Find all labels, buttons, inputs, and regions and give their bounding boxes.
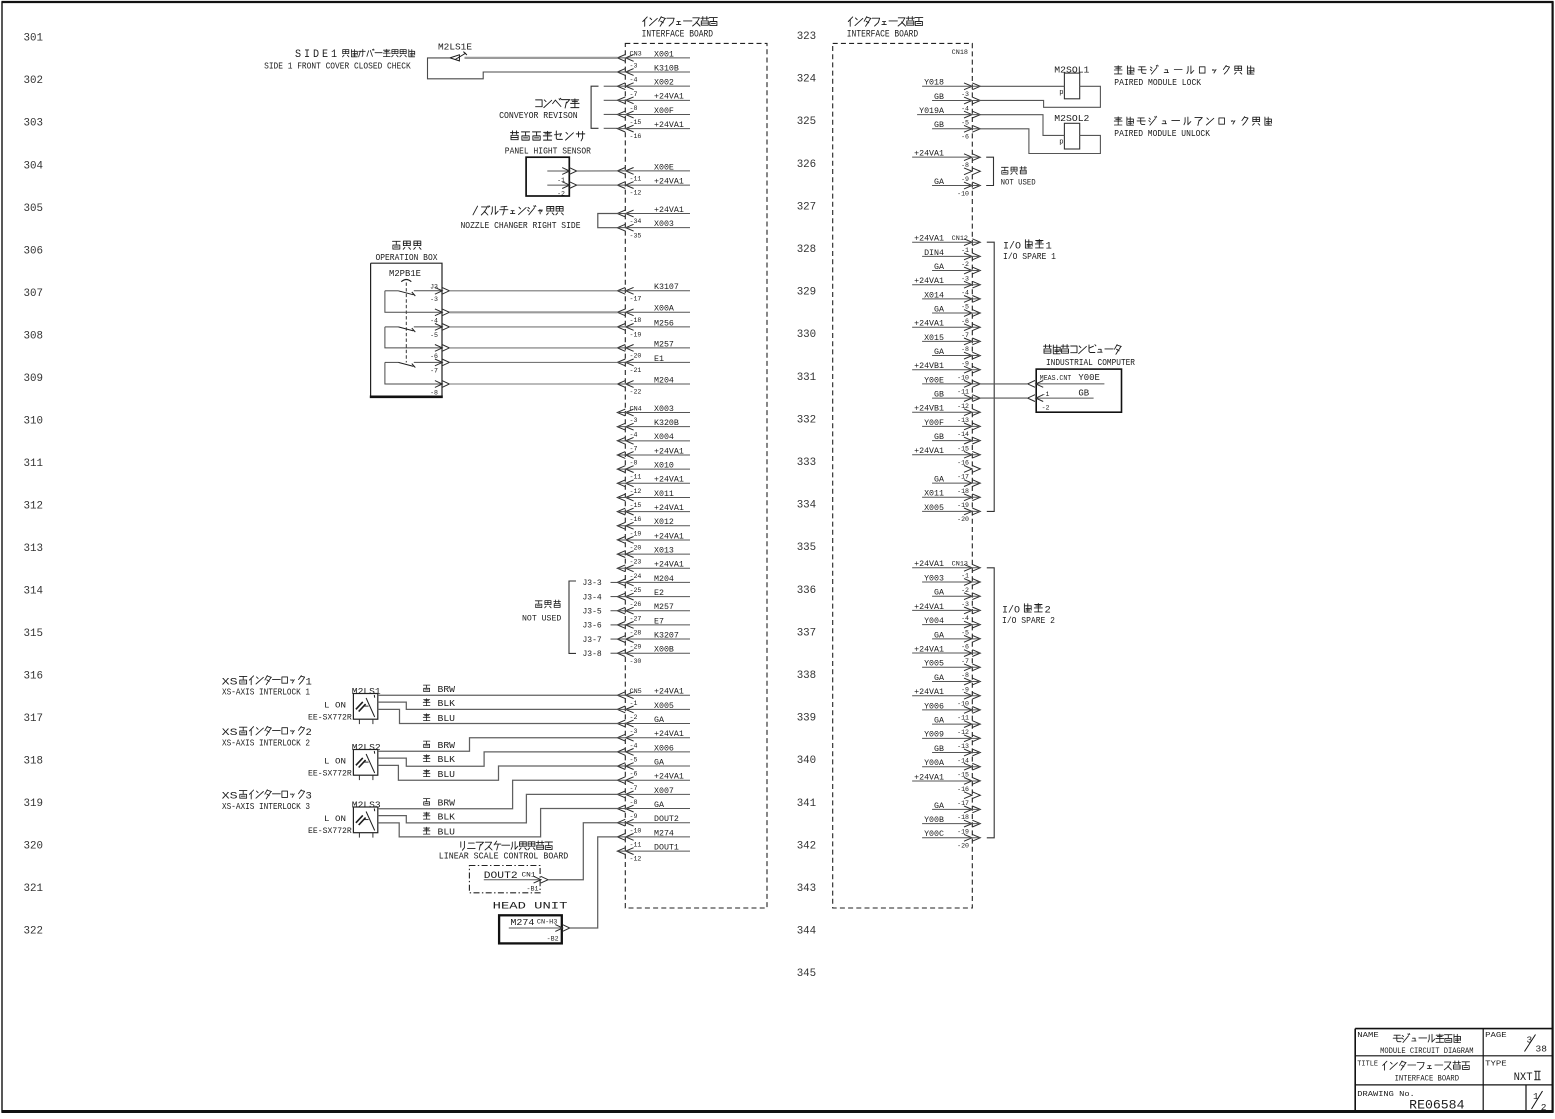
wire BLK sensor M2LS3 to CN5 [378, 794, 618, 823]
svg-text:321: 321 [24, 883, 44, 895]
svg-text:+24VA1: +24VA1 [914, 773, 944, 782]
svg-text:J3-8: J3-8 [583, 650, 602, 659]
wire M274 head unit to CN5-10 [570, 837, 618, 928]
connector CN12 pin -18 GA [932, 475, 980, 494]
connector CN13 pin -7 +24VA1 [912, 645, 980, 664]
svg-text:-15: -15 [957, 445, 969, 452]
svg-text:-17: -17 [957, 800, 969, 807]
svg-text:GA: GA [934, 305, 944, 314]
svg-text:-28: -28 [630, 630, 642, 637]
interface board (left) title [642, 17, 718, 41]
connector CN12 pin -5 X014 [922, 291, 980, 310]
svg-text:CN13: CN13 [952, 561, 968, 569]
svg-text:J3-3: J3-3 [583, 579, 602, 588]
industrial computer box [1036, 369, 1121, 412]
svg-text:-25: -25 [630, 587, 642, 594]
connector CN5 pin -4 +24VA1 [617, 730, 690, 749]
label panel height sensor [505, 131, 592, 157]
title block PAGE cell [1485, 1032, 1547, 1054]
svg-text:322: 322 [24, 926, 44, 938]
svg-text:PAIRED MODULE UNLOCK: PAIRED MODULE UNLOCK [1114, 129, 1210, 139]
bracket I/O spare 1 [987, 242, 994, 511]
label linear scale control board [439, 841, 569, 862]
svg-text:342: 342 [797, 840, 817, 852]
connector CN5 pin -8 X007 [617, 787, 690, 806]
svg-text:-16: -16 [957, 460, 969, 467]
connector CN12 pin -3 GA [932, 263, 980, 282]
computer GB pin [1028, 388, 1094, 411]
svg-text:Y004: Y004 [924, 617, 944, 626]
connector CN3 nozzle pin -35 X003 [617, 220, 690, 239]
conveyor revision selection bracket [591, 86, 618, 128]
svg-text:-2: -2 [557, 191, 565, 198]
svg-text:-13: -13 [957, 743, 969, 750]
connector CN5 pin -11 M274 [617, 829, 690, 848]
svg-text:+24VA1: +24VA1 [914, 688, 944, 697]
wire Y018 to M2SOL1 [980, 85, 1064, 87]
svg-text:-15: -15 [630, 119, 642, 126]
svg-text:J3-4: J3-4 [583, 593, 602, 602]
nozzle changer jumper loop [598, 214, 618, 228]
connector CN4 pin -15 X011 [617, 490, 690, 509]
connector CN4 pin -29 K3207 [617, 631, 690, 650]
connector CN3 lower pin -12 +24VA1 [617, 177, 690, 196]
svg-text:I/O: I/O [1002, 604, 1020, 616]
svg-text:-18: -18 [630, 317, 642, 324]
svg-text:X011: X011 [654, 490, 674, 499]
solenoid M2SOL2 [1054, 114, 1089, 149]
svg-text:L ON: L ON [324, 814, 346, 824]
svg-text:-10: -10 [957, 375, 969, 382]
svg-text:-6: -6 [430, 353, 438, 360]
svg-text:-11: -11 [630, 842, 642, 849]
title block TYPE cell [1485, 1061, 1540, 1084]
grid line numbers 301-322 (left column) [24, 33, 44, 938]
svg-text:-1: -1 [557, 177, 565, 184]
svg-text:XS-AXIS INTERLOCK 2: XS-AXIS INTERLOCK 2 [222, 739, 310, 749]
connector CN13 pin -1 +24VA1 [912, 560, 980, 579]
svg-text:HEAD UNIT: HEAD UNIT [493, 900, 568, 912]
svg-text:-3: -3 [430, 296, 438, 303]
svg-text:X003: X003 [654, 405, 674, 414]
wire BLU sensor M2LS1 to CN5 [378, 709, 618, 723]
svg-text:-16: -16 [630, 133, 642, 140]
linear scale control board box [469, 866, 540, 893]
connector CN5 pin -12 DOUT1 [617, 843, 690, 862]
grid line numbers 323-345 (middle column) [797, 31, 817, 980]
push-button contact 2 [385, 327, 442, 348]
svg-text:-6: -6 [961, 644, 969, 651]
svg-text:-16: -16 [630, 516, 642, 523]
svg-text:313: 313 [24, 543, 44, 555]
connector CN12 pin -6 GA [932, 305, 980, 324]
connector CN18 pin -3 Y018 [922, 79, 980, 98]
svg-text:GB: GB [934, 93, 944, 102]
svg-text:L ON: L ON [324, 701, 346, 711]
computer MEAS.CNT Y00E pin [1028, 373, 1105, 398]
svg-text:-12: -12 [957, 403, 969, 410]
label not used (J3-3..J3-8) [522, 600, 561, 624]
svg-text:-17: -17 [630, 295, 642, 302]
wire color label BLU sensor 2 [423, 770, 455, 780]
svg-text:328: 328 [797, 244, 817, 256]
title block frame [1355, 1029, 1553, 1112]
svg-text:GB: GB [1078, 388, 1089, 398]
svg-text:GA: GA [934, 348, 944, 357]
svg-text:-11: -11 [957, 715, 969, 722]
connector CN3 pin -21 E1 [617, 355, 690, 374]
svg-text:-5: -5 [430, 332, 438, 339]
svg-text:Y003: Y003 [924, 574, 944, 583]
connector CN5 pin -3 GA [617, 716, 690, 735]
connector CN13 pin -2 Y003 [922, 574, 980, 593]
svg-text:-7: -7 [430, 368, 438, 375]
bracket I/O spare 2 [987, 568, 994, 838]
svg-text:338: 338 [797, 670, 817, 682]
push button M2PB1E [389, 269, 421, 363]
svg-text:M2SOL1: M2SOL1 [1054, 65, 1089, 75]
svg-text:CN-H3: CN-H3 [537, 918, 558, 926]
operation box outline [370, 263, 443, 397]
svg-text:316: 316 [24, 671, 44, 683]
svg-text:M256: M256 [654, 319, 674, 328]
svg-text:335: 335 [797, 542, 817, 554]
connector CN4 pin -19 X012 [617, 518, 690, 537]
svg-text:329: 329 [797, 287, 817, 299]
svg-text:1: 1 [1046, 240, 1052, 252]
wire color label BLK sensor 1 [423, 699, 455, 709]
svg-text:X00A: X00A [654, 305, 674, 314]
svg-text:NAME: NAME [1357, 1032, 1379, 1040]
connector CN18 pin -10 GA [932, 178, 980, 197]
label nozzle changer right side [461, 206, 581, 231]
svg-text:X001: X001 [654, 50, 674, 59]
connector CN3 pin -17 K3107 [617, 283, 690, 302]
connector CN3 pin -19 M256 [617, 319, 690, 338]
wire M2SOL1 return to GB [980, 86, 1100, 107]
svg-text:-10: -10 [630, 827, 642, 834]
svg-text:EE-SX772R: EE-SX772R [308, 826, 352, 836]
connector CN13 pin -13 Y009 [922, 731, 980, 750]
svg-text:INTERFACE BOARD: INTERFACE BOARD [1395, 1074, 1459, 1084]
svg-text:BLU: BLU [438, 828, 456, 838]
svg-text:GA: GA [934, 475, 944, 484]
svg-text:-19: -19 [957, 502, 969, 509]
svg-text:NXT: NXT [1514, 1072, 1533, 1084]
connector CN3 pin -3 X001 [617, 50, 690, 69]
svg-text:-20: -20 [630, 353, 642, 360]
connector CN13 pin -16 +24VA1 [912, 773, 980, 792]
svg-text:-11: -11 [630, 474, 642, 481]
connector CN13 pin -5 Y004 [922, 617, 980, 636]
label XS-axis interlock 3 [222, 790, 312, 812]
svg-text:GA: GA [654, 716, 664, 725]
connector CN18 pin -9 [961, 168, 980, 183]
svg-text:DOUT1: DOUT1 [654, 843, 679, 852]
svg-text:2: 2 [306, 727, 312, 739]
svg-text:-11: -11 [957, 389, 969, 396]
svg-text:305: 305 [24, 203, 44, 215]
svg-text:X014: X014 [924, 291, 944, 300]
cable operation box to CN3 [449, 291, 617, 384]
svg-text:331: 331 [797, 372, 817, 384]
connector CN4 pin -4 K320B [617, 419, 690, 438]
wire color label BRW sensor 3 [423, 799, 455, 809]
svg-text:BLK: BLK [438, 813, 456, 823]
svg-text:XS: XS [222, 791, 238, 803]
svg-text:Y019A: Y019A [919, 107, 944, 116]
svg-text:J3-5: J3-5 [583, 608, 602, 617]
wire GB CN12 to computer [980, 397, 1027, 399]
svg-text:336: 336 [797, 585, 817, 597]
stubs J3-3..J3-8 [583, 579, 618, 659]
svg-text:M257: M257 [654, 603, 674, 612]
svg-text:GB: GB [934, 121, 944, 130]
connector CN3 pin -15 X00F [617, 107, 690, 126]
connector CN4 pin -3 X003 [617, 405, 690, 424]
wire BLK sensor M2LS2 to CN5 [378, 752, 618, 766]
svg-text:CN5: CN5 [630, 688, 642, 696]
wire Y00E CN12 to computer [980, 383, 1027, 385]
svg-text:337: 337 [797, 627, 817, 639]
connector CN12 pin -1 +24VA1 [912, 235, 980, 254]
svg-text:X005: X005 [654, 702, 674, 711]
svg-text:308: 308 [24, 330, 44, 342]
svg-text:-10: -10 [957, 700, 969, 707]
title block sheet 1/2 cell [1532, 1091, 1547, 1113]
svg-text:XS-AXIS INTERLOCK 1: XS-AXIS INTERLOCK 1 [222, 688, 310, 698]
wire color label BLK sensor 2 [423, 755, 455, 765]
svg-text:+24VA1: +24VA1 [654, 504, 684, 513]
svg-text:SIDE 1 FRONT COVER CLOSED CHEC: SIDE 1 FRONT COVER CLOSED CHECK [264, 61, 411, 71]
connector CN12 pin -15 GB [932, 433, 980, 452]
svg-text:GB: GB [934, 433, 944, 442]
svg-text:323: 323 [797, 31, 817, 43]
connector CN4 pin -23 X013 [617, 547, 690, 566]
connector CN18 pin -6 GB [932, 121, 980, 140]
connector CN13 pin -20 Y00C [922, 830, 980, 849]
svg-text:p: p [1059, 89, 1063, 97]
wire color label BLU sensor 1 [423, 714, 455, 724]
cable panel sensor to CN3 [577, 170, 618, 172]
svg-text:-2: -2 [1042, 405, 1050, 412]
svg-text:+24VA1: +24VA1 [654, 532, 684, 541]
svg-text:-19: -19 [957, 828, 969, 835]
svg-text:327: 327 [797, 201, 817, 213]
svg-text:MEAS.CNT: MEAS.CNT [1040, 375, 1071, 383]
svg-text:X00B: X00B [654, 646, 674, 655]
svg-text:DRAWING No.: DRAWING No. [1357, 1091, 1415, 1099]
svg-text:-15: -15 [957, 772, 969, 779]
svg-text:311: 311 [24, 458, 44, 470]
connector CN12 pin -7 +24VA1 [912, 320, 980, 339]
svg-text:-35: -35 [630, 232, 642, 239]
svg-text:GA: GA [934, 802, 944, 811]
label conveyor revision [499, 98, 579, 121]
svg-text:INTERFACE BOARD: INTERFACE BOARD [847, 30, 918, 41]
connector CN13 pin -15 Y00A [922, 759, 980, 778]
connector CN5 pin -1 +24VA1 [617, 688, 690, 707]
wire DOUT2 to CN5-9 [548, 823, 617, 880]
svg-text:+24VA1: +24VA1 [654, 447, 684, 456]
connector CN3 nozzle pin -34 +24VA1 [617, 206, 690, 225]
connector CN4 pin -27 M257 [617, 603, 690, 622]
svg-text:Y00A: Y00A [924, 759, 944, 768]
svg-text:M274: M274 [510, 917, 534, 928]
connector CN12 pin -4 +24VA1 [912, 277, 980, 296]
svg-text:Y00C: Y00C [924, 830, 944, 839]
svg-text:M2LS1E: M2LS1E [438, 43, 472, 53]
svg-text:-12: -12 [957, 729, 969, 736]
solenoid M2SOL1 [1054, 65, 1089, 99]
label paired module lock [1114, 65, 1254, 88]
wire BLU sensor M2LS2 to CN5 [378, 765, 618, 780]
wire M2SOL2 return to GB [980, 129, 1100, 154]
svg-text:332: 332 [797, 414, 817, 426]
svg-text:LINEAR SCALE CONTROL BOARD: LINEAR SCALE CONTROL BOARD [439, 852, 569, 862]
svg-text:M274: M274 [654, 829, 674, 838]
svg-text:J3-6: J3-6 [583, 622, 602, 631]
svg-text:+24VA1: +24VA1 [654, 773, 684, 782]
svg-text:X011: X011 [924, 490, 944, 499]
svg-text:320: 320 [24, 841, 44, 853]
svg-text:M204: M204 [654, 575, 674, 584]
connector CN4 pin -8 +24VA1 [617, 447, 690, 466]
connector CN3 lower pin -11 X00E [617, 163, 690, 182]
svg-text:M257: M257 [654, 340, 674, 349]
svg-text:L ON: L ON [324, 757, 346, 767]
connector CN4 pin -11 X010 [617, 462, 690, 481]
connector CN3 pin -18 X00A [617, 305, 690, 324]
svg-text:319: 319 [24, 798, 44, 810]
head unit M274 / CN-H3 pin [509, 917, 570, 944]
svg-text:X00F: X00F [654, 107, 674, 116]
connector CN4 pin -24 +24VA1 [617, 561, 690, 580]
connector CN5 pin -7 +24VA1 [617, 773, 690, 792]
svg-text:K310B: K310B [654, 64, 679, 73]
svg-text:-8: -8 [430, 389, 438, 396]
svg-text:301: 301 [24, 33, 44, 45]
svg-text:-30: -30 [630, 658, 642, 665]
label I/O spare 2 [1002, 604, 1055, 626]
svg-text:K320B: K320B [654, 419, 679, 428]
connector CN12 pin -12 GB [932, 390, 980, 409]
connector CN4 pin -30 X00B [617, 646, 690, 665]
svg-text:-18: -18 [957, 488, 969, 495]
svg-text:-27: -27 [630, 615, 642, 622]
connector CN4 pin -26 E2 [617, 589, 690, 608]
svg-text:340: 340 [797, 755, 817, 767]
svg-text:+24VA1: +24VA1 [654, 121, 684, 130]
svg-text:GA: GA [934, 589, 944, 598]
svg-text:-6: -6 [961, 134, 969, 141]
svg-text:X005: X005 [924, 504, 944, 513]
title block DRAWING No cell [1357, 1091, 1464, 1113]
wire color label BRW sensor 1 [423, 685, 455, 695]
connector CN13 pin -3 GA [932, 589, 980, 608]
svg-text:M2LS2: M2LS2 [352, 743, 381, 753]
svg-text:Y006: Y006 [924, 702, 944, 711]
svg-text:X013: X013 [654, 547, 674, 556]
photoelectric sensor M2LS3 (EE-SX772R) [308, 801, 381, 838]
svg-text:SIDE1: SIDE1 [295, 49, 340, 61]
svg-text:307: 307 [24, 288, 44, 300]
svg-text:PAGE: PAGE [1485, 1032, 1507, 1040]
title block TITLE cell [1357, 1061, 1469, 1084]
svg-text:-18: -18 [957, 814, 969, 821]
svg-text:343: 343 [797, 883, 817, 895]
svg-text:-B1: -B1 [527, 886, 539, 894]
svg-text:-10: -10 [957, 190, 969, 197]
svg-text:325: 325 [797, 116, 817, 128]
panel height sensor box [526, 157, 577, 198]
svg-text:302: 302 [24, 75, 44, 87]
svg-text:2: 2 [1045, 604, 1051, 616]
svg-text:PAIRED MODULE LOCK: PAIRED MODULE LOCK [1114, 78, 1201, 88]
push-button contact 1 [385, 291, 442, 313]
connector CN4 pin -16 +24VA1 [617, 504, 690, 523]
svg-text:309: 309 [24, 373, 44, 385]
svg-text:-22: -22 [630, 389, 642, 396]
connector CN4 pin -12 +24VA1 [617, 476, 690, 495]
svg-text:+24VA1: +24VA1 [914, 277, 944, 286]
connector CN12 pin -11 Y00E [922, 376, 980, 395]
svg-text:Y009: Y009 [924, 731, 944, 740]
label XS-axis interlock 2 [222, 726, 312, 748]
svg-text:324: 324 [797, 74, 817, 86]
svg-text:X003: X003 [654, 220, 674, 229]
svg-text:339: 339 [797, 713, 817, 725]
connector CN4 pin -20 +24VA1 [617, 532, 690, 551]
svg-text:GA: GA [934, 631, 944, 640]
svg-text:-24: -24 [630, 573, 642, 580]
svg-text:I/O: I/O [1003, 240, 1021, 252]
push-button contact 3 [385, 362, 442, 384]
svg-text:315: 315 [24, 628, 44, 640]
svg-text:-11: -11 [630, 176, 642, 183]
svg-text:BLU: BLU [438, 770, 456, 780]
svg-text:BLU: BLU [438, 714, 456, 724]
svg-text:TITLE: TITLE [1357, 1061, 1378, 1069]
svg-text:314: 314 [24, 585, 44, 597]
limit switch M2LS1E [438, 43, 472, 61]
connector CN18 pin -8 +24VA1 [912, 150, 980, 169]
svg-text:BLK: BLK [438, 755, 456, 765]
svg-text:CN1: CN1 [522, 872, 536, 880]
svg-text:TYPE: TYPE [1485, 1061, 1507, 1069]
svg-text:-20: -20 [957, 516, 969, 523]
svg-text:Y005: Y005 [924, 660, 944, 669]
wire M2LS1E left terminal loop to K310B [428, 58, 618, 79]
connector CN12 pin -19 X011 [922, 490, 980, 509]
svg-text:312: 312 [24, 500, 44, 512]
connector CN12 pin -2 DIN4 [922, 249, 980, 268]
svg-text:+24VA1: +24VA1 [654, 206, 684, 215]
svg-text:+24VA1: +24VA1 [654, 93, 684, 102]
connector CN12 pin -17 [957, 466, 980, 481]
svg-text:1: 1 [306, 676, 312, 688]
connector CN5 pin -2 X005 [617, 702, 690, 721]
svg-text:303: 303 [24, 118, 44, 130]
connector CN13 pin -19 Y00B [922, 816, 980, 835]
connector CN5 pin -6 GA [617, 758, 690, 777]
connector CN18 pin -4 GB [932, 93, 980, 112]
svg-text:J3: J3 [430, 283, 438, 290]
svg-text:-34: -34 [630, 218, 642, 225]
photoelectric sensor M2LS1 (EE-SX772R) [308, 687, 381, 724]
wire BRW sensor M2LS1 to CN5 [378, 694, 618, 696]
svg-text:E1: E1 [654, 355, 664, 364]
